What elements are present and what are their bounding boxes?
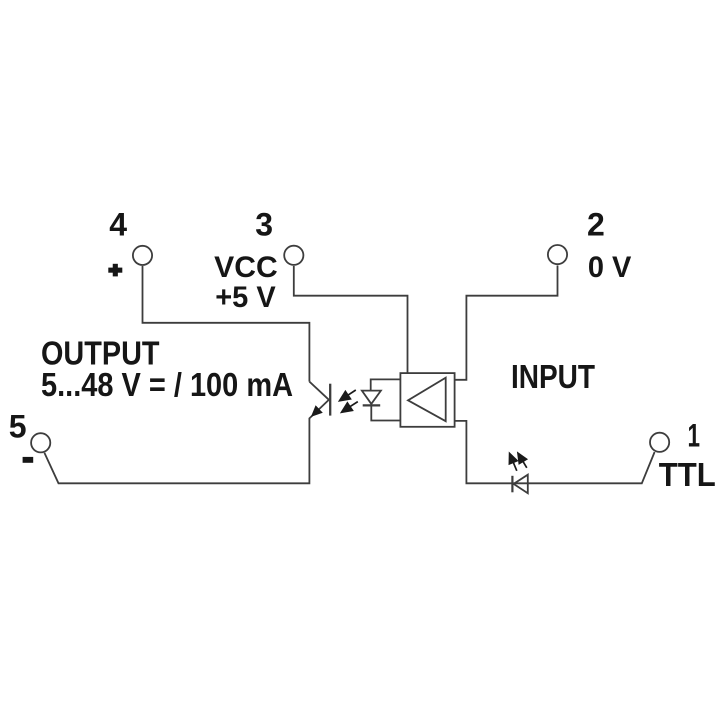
svg-text:TTL: TTL <box>659 456 715 493</box>
svg-text:5...48 V = / 100 mA: 5...48 V = / 100 mA <box>41 366 293 403</box>
svg-text:INPUT: INPUT <box>511 358 595 395</box>
svg-text:0 V: 0 V <box>588 251 632 284</box>
svg-text:5: 5 <box>9 409 27 445</box>
svg-text:2: 2 <box>587 207 605 243</box>
svg-text:VCC: VCC <box>214 251 278 284</box>
svg-text:1: 1 <box>688 418 701 454</box>
svg-text:3: 3 <box>255 207 273 243</box>
svg-text:4: 4 <box>109 207 127 243</box>
svg-text:+5 V: +5 V <box>215 281 276 314</box>
